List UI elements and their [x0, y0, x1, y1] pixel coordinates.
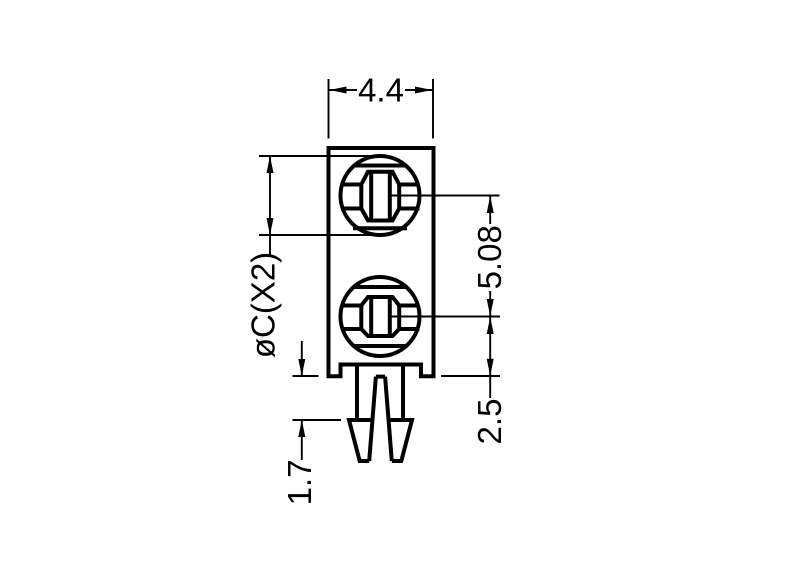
- svg-text:1.7: 1.7: [281, 459, 318, 505]
- right arrow: [415, 87, 432, 94]
- right leg outer edge: [401, 365, 405, 421]
- up arrow: [267, 156, 274, 173]
- slot between legs: [369, 377, 392, 461]
- svg-text:øC(X2): øC(X2): [245, 252, 282, 358]
- right barb: [389, 420, 412, 461]
- dimension line right: [405, 89, 432, 91]
- bottom chord: [353, 344, 407, 348]
- holder body outline: [329, 148, 434, 376]
- bottom chord: [353, 226, 407, 230]
- svg-text:2.5: 2.5: [471, 399, 508, 445]
- lower leader line: [301, 421, 303, 460]
- inner rectangle: [369, 297, 373, 336]
- bottom extension line: [441, 375, 500, 377]
- circle 2: [341, 277, 420, 356]
- LED hole 1: [341, 156, 420, 235]
- upper leader line: [301, 341, 303, 375]
- down arrow: [267, 218, 274, 235]
- left arrow: [330, 87, 347, 94]
- octagon: [361, 297, 399, 336]
- left leg outer edge: [355, 365, 359, 421]
- dimension phi-C (X2): [245, 156, 379, 358]
- svg-text:5.08: 5.08: [471, 225, 508, 289]
- dimension 5.08: [471, 196, 508, 316]
- LED hole 2: [341, 277, 420, 356]
- centerline of hole 2 (extension for 5.08 / 2.5): [390, 316, 500, 318]
- dimension line: [489, 318, 491, 399]
- down arrow (to top line): [298, 359, 305, 376]
- wings: [341, 183, 361, 187]
- dimension line upper: [489, 197, 491, 225]
- up arrow: [487, 196, 494, 213]
- dimension 1.7: [281, 341, 341, 505]
- wings: [341, 304, 361, 308]
- dimension line: [269, 157, 271, 255]
- dimension 4.4: [329, 71, 434, 138]
- down arrow: [487, 359, 494, 376]
- bottom extension line: [259, 234, 378, 236]
- octagon: [361, 172, 399, 221]
- centerline of hole 1 (extension for 5.08): [390, 195, 500, 197]
- inner rectangle: [369, 172, 373, 221]
- top extension line: [259, 155, 378, 157]
- down arrow: [487, 299, 494, 316]
- circle 1: [341, 156, 420, 235]
- dimension line left: [330, 89, 358, 91]
- bottom extension line: [293, 419, 342, 421]
- up arrow: [487, 317, 494, 334]
- top extension line: [293, 375, 319, 377]
- left barb: [349, 420, 372, 461]
- dimension 2.5: [441, 317, 508, 444]
- left extension line: [328, 79, 330, 139]
- top chord: [353, 164, 407, 168]
- top chord: [353, 285, 407, 289]
- svg-text:4.4: 4.4: [358, 71, 404, 108]
- up arrow (to bottom line): [298, 420, 305, 437]
- right extension line: [432, 79, 434, 139]
- dimension line lower: [489, 291, 491, 316]
